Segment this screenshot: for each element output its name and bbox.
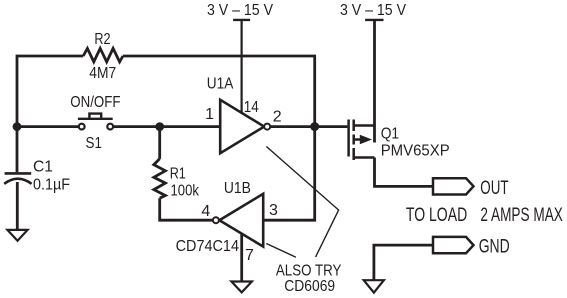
wire left vertical rail	[16, 55, 19, 173]
ground (GND flag)	[364, 280, 384, 292]
svg-text:ALSO TRY: ALSO TRY	[276, 262, 342, 279]
resistor R1	[154, 159, 166, 198]
svg-text:OUT: OUT	[480, 178, 508, 199]
wire C1 lower lead	[16, 182, 19, 230]
wire top-left horizontal with R2 feedback run	[17, 55, 83, 58]
svg-text:PMV65XP: PMV65XP	[381, 143, 450, 160]
svg-text:14: 14	[244, 99, 259, 116]
U1A output bubble	[264, 124, 270, 130]
svg-text:3 V – 15 V: 3 V – 15 V	[207, 2, 273, 19]
OUT connector flag	[433, 178, 474, 194]
leader line to U1B (ALSO TRY)	[266, 244, 296, 258]
svg-text:GND: GND	[479, 236, 510, 257]
svg-text:0.1µF: 0.1µF	[33, 176, 70, 193]
capacitor C1	[4, 173, 31, 183]
svg-text:S1: S1	[86, 135, 102, 152]
wire R1 branch and pin4 run	[158, 127, 161, 159]
wire Q1 drain to OUT	[375, 158, 434, 187]
wire main signal left segment	[17, 125, 79, 128]
junction dot (R1 / signal)	[155, 122, 164, 131]
junction dot (feedback / output)	[310, 122, 319, 131]
svg-text:100k: 100k	[171, 183, 200, 200]
svg-text:R1: R1	[170, 166, 186, 183]
junction dot (left rail / signal)	[13, 122, 22, 131]
svg-text:CD74C14: CD74C14	[176, 238, 239, 255]
svg-text:7: 7	[245, 247, 254, 264]
svg-text:4: 4	[201, 203, 210, 220]
Q1 body arrow	[360, 135, 372, 145]
ground (below C1)	[7, 230, 27, 241]
power rail 2: 3V-15V supply to Q1 source	[365, 20, 383, 143]
ground (U1B pin 7)	[231, 282, 252, 293]
wire feedback vertical / U1B pin3 L	[123, 56, 315, 220]
leader line to U1A (ALSO TRY)	[266, 147, 338, 258]
wire S1 right to R1 node to U1A input	[113, 125, 220, 128]
wire GND flag to ground	[374, 245, 433, 280]
U1B output bubble	[213, 217, 219, 223]
svg-text:C1: C1	[33, 159, 53, 176]
resistor R2	[83, 48, 123, 62]
svg-text:TO LOAD: TO LOAD	[406, 205, 467, 226]
svg-text:CD6069: CD6069	[284, 278, 335, 295]
inverter U1A	[220, 100, 264, 153]
power rail 1: 3V-15V supply to U1A pin 14	[233, 20, 250, 113]
inverter U1B (facing left)	[219, 194, 263, 247]
svg-text:Q1: Q1	[381, 126, 399, 143]
svg-text:U1A: U1A	[207, 76, 234, 93]
wire R1 bottom to U1B pin4	[160, 198, 213, 220]
svg-text:1: 1	[205, 106, 214, 123]
svg-text:R2: R2	[94, 31, 110, 48]
svg-text:4M7: 4M7	[89, 65, 116, 82]
svg-text:2: 2	[273, 108, 282, 125]
svg-text:2 AMPS MAX: 2 AMPS MAX	[480, 205, 563, 226]
svg-text:ON/OFF: ON/OFF	[70, 94, 120, 111]
wire U1B pin7	[240, 234, 243, 282]
svg-text:U1B: U1B	[224, 180, 251, 197]
wire U1A output to Q1 gate	[270, 125, 347, 128]
GND connector flag	[433, 237, 474, 253]
transistor Q1 (P-channel MOSFET)	[349, 120, 375, 161]
svg-text:3: 3	[269, 202, 278, 219]
svg-text:3 V – 15 V: 3 V – 15 V	[340, 2, 406, 19]
switch S1	[78, 114, 113, 130]
